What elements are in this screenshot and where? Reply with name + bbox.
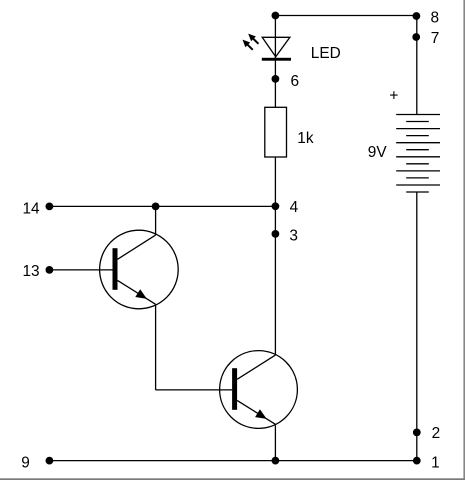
svg-text:1k: 1k — [297, 130, 314, 147]
svg-text:2: 2 — [432, 425, 441, 442]
svg-text:3: 3 — [289, 228, 298, 245]
svg-text:9: 9 — [21, 454, 30, 471]
svg-text:1: 1 — [431, 454, 440, 471]
svg-text:4: 4 — [290, 199, 299, 216]
svg-text:7: 7 — [431, 30, 440, 47]
svg-text:14: 14 — [23, 201, 41, 218]
svg-text:8: 8 — [431, 9, 440, 26]
svg-text:9V: 9V — [368, 144, 388, 161]
svg-text:+: + — [389, 87, 398, 104]
svg-text:LED: LED — [311, 45, 341, 62]
svg-text:13: 13 — [23, 263, 40, 280]
svg-text:6: 6 — [291, 73, 300, 90]
